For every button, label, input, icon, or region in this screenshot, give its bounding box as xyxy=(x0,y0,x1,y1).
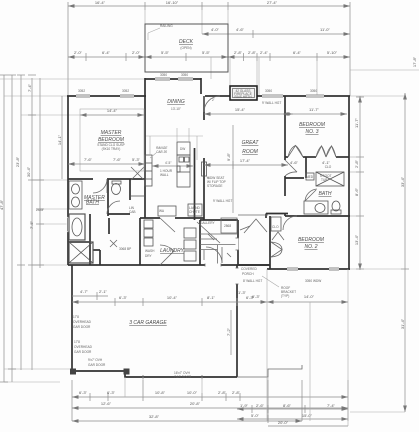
svg-text:BEDROOM: BEDROOM xyxy=(299,122,326,128)
svg-text:7'-6": 7'-6" xyxy=(113,157,122,162)
svg-text:16'-4": 16'-4" xyxy=(95,0,106,5)
svg-text:1'-9": 1'-9" xyxy=(240,403,249,408)
svg-text:6'-4": 6'-4" xyxy=(102,50,111,55)
svg-text:MED: MED xyxy=(306,175,314,179)
svg-text:RAILING: RAILING xyxy=(160,24,173,28)
svg-text:3052: 3052 xyxy=(78,89,85,93)
svg-text:DW: DW xyxy=(180,147,185,151)
svg-text:GAR DOOR: GAR DOOR xyxy=(174,375,192,379)
svg-text:6'-4": 6'-4" xyxy=(293,50,302,55)
svg-text:17'8: 17'8 xyxy=(74,340,80,344)
svg-text:GALLERY: GALLERY xyxy=(200,221,216,225)
svg-text:GAR DOOR: GAR DOOR xyxy=(88,363,106,367)
svg-text:3050: 3050 xyxy=(310,89,317,93)
svg-text:3 CAR GARAGE: 3 CAR GARAGE xyxy=(129,320,167,326)
svg-text:2'-0": 2'-0" xyxy=(74,50,83,55)
svg-text:30'-4": 30'-4" xyxy=(26,166,31,177)
svg-text:5'-0": 5'-0" xyxy=(251,413,260,418)
svg-text:20'-0": 20'-0" xyxy=(278,420,289,425)
svg-text:NO. 3: NO. 3 xyxy=(305,129,318,135)
svg-text:14'-1": 14'-1" xyxy=(57,134,62,145)
svg-text:4'-5": 4'-5" xyxy=(165,161,171,165)
svg-text:9'-8": 9'-8" xyxy=(226,152,231,161)
svg-text:CHUTE: CHUTE xyxy=(189,210,200,214)
svg-text:2'-8": 2'-8" xyxy=(234,50,243,55)
svg-text:27'-4": 27'-4" xyxy=(267,0,278,5)
svg-text:13'-10": 13'-10" xyxy=(171,107,181,111)
svg-text:OVERHEAD: OVERHEAD xyxy=(74,345,93,349)
svg-text:WALL: WALL xyxy=(160,173,169,177)
svg-text:CLO: CLO xyxy=(272,225,279,229)
svg-text:7'-6": 7'-6" xyxy=(84,157,93,162)
svg-text:4'-7": 4'-7" xyxy=(80,289,89,294)
svg-text:5'-10": 5'-10" xyxy=(327,50,338,55)
svg-text:DECK: DECK xyxy=(179,39,194,45)
svg-text:2'-6": 2'-6" xyxy=(256,403,265,408)
svg-text:2'-8": 2'-8" xyxy=(232,390,241,395)
svg-text:3050 WDW: 3050 WDW xyxy=(305,279,321,283)
svg-text:DRY: DRY xyxy=(145,254,153,258)
svg-text:2': 2' xyxy=(212,98,215,102)
svg-text:MASTER: MASTER xyxy=(101,130,122,136)
svg-text:PORCH: PORCH xyxy=(242,272,254,276)
svg-text:DINING: DINING xyxy=(167,99,185,105)
svg-text:2'-8": 2'-8" xyxy=(218,390,227,395)
svg-text:BATH: BATH xyxy=(86,200,99,206)
svg-text:3050: 3050 xyxy=(160,73,167,77)
svg-text:7'-5": 7'-5" xyxy=(29,220,34,229)
svg-text:3068 BP: 3068 BP xyxy=(119,247,131,251)
svg-text:5'-3": 5'-3" xyxy=(132,157,141,162)
svg-text:4'-6": 4'-6" xyxy=(290,160,299,165)
svg-text:(9X10 TRAY): (9X10 TRAY) xyxy=(102,147,121,151)
svg-text:17'8: 17'8 xyxy=(73,315,79,319)
svg-text:3050: 3050 xyxy=(181,73,188,77)
svg-text:4'-0": 4'-0" xyxy=(211,27,220,32)
svg-text:16'-10": 16'-10" xyxy=(166,0,179,5)
svg-text:6'-3": 6'-3" xyxy=(246,295,255,300)
svg-text:17'-4": 17'-4" xyxy=(240,158,251,163)
svg-text:GAR DOOR: GAR DOOR xyxy=(74,350,92,354)
svg-text:10'-8": 10'-8" xyxy=(155,390,166,395)
svg-text:2'-1": 2'-1" xyxy=(99,289,108,294)
svg-text:12'-6": 12'-6" xyxy=(101,401,112,406)
svg-text:GREAT: GREAT xyxy=(242,140,260,146)
svg-text:5'-5": 5'-5" xyxy=(202,50,211,55)
svg-text:1'-3": 1'-3" xyxy=(238,290,247,295)
svg-text:47'-8": 47'-8" xyxy=(0,199,4,210)
svg-text:33'-4": 33'-4" xyxy=(400,176,405,187)
svg-text:COVERED: COVERED xyxy=(241,267,257,271)
svg-text:2'-4": 2'-4" xyxy=(260,50,269,55)
svg-text:31'-4": 31'-4" xyxy=(400,318,405,329)
svg-text:8'-1": 8'-1" xyxy=(207,295,216,300)
svg-text:6'-3": 6'-3" xyxy=(79,390,88,395)
svg-text:13'-4": 13'-4" xyxy=(354,234,359,245)
svg-text:CLO: CLO xyxy=(325,165,332,169)
svg-text:2'-8": 2'-8" xyxy=(248,50,257,55)
svg-text:6'-3": 6'-3" xyxy=(107,390,116,395)
svg-text:CAB: CAB xyxy=(129,210,136,214)
svg-text:ROOM: ROOM xyxy=(242,149,258,155)
svg-text:6'-3": 6'-3" xyxy=(119,295,128,300)
svg-text:4'-6": 4'-6" xyxy=(236,27,245,32)
svg-text:2'-0": 2'-0" xyxy=(132,50,141,55)
svg-text:14'-0": 14'-0" xyxy=(304,294,315,299)
svg-text:STORAGE: STORAGE xyxy=(207,184,223,188)
svg-text:WASH: WASH xyxy=(145,249,155,253)
svg-text:7'-4": 7'-4" xyxy=(27,83,32,92)
svg-text:BATH: BATH xyxy=(319,191,332,197)
svg-text:3052: 3052 xyxy=(122,89,129,93)
svg-text:2868: 2868 xyxy=(224,224,231,228)
svg-text:3050: 3050 xyxy=(265,89,272,93)
svg-text:10'-0": 10'-0" xyxy=(187,390,198,395)
svg-text:2'-8": 2'-8" xyxy=(354,159,359,168)
svg-text:7'-2": 7'-2" xyxy=(226,327,231,336)
svg-text:CAB 30: CAB 30 xyxy=(156,150,167,154)
svg-text:NO. 2: NO. 2 xyxy=(304,244,317,250)
svg-text:LAUNDRY: LAUNDRY xyxy=(160,248,184,254)
svg-text:GAR DOOR: GAR DOOR xyxy=(73,325,91,329)
svg-text:7'-4": 7'-4" xyxy=(327,403,336,408)
svg-text:TUB: TUB xyxy=(321,178,327,182)
svg-text:9' WALL HGT: 9' WALL HGT xyxy=(213,199,232,203)
svg-text:23'-8": 23'-8" xyxy=(15,156,20,167)
svg-text:9' WALL HGT: 9' WALL HGT xyxy=(262,101,281,105)
svg-text:11'-7": 11'-7" xyxy=(354,117,359,127)
svg-text:8' WALL HGT: 8' WALL HGT xyxy=(243,279,262,283)
svg-text:2428: 2428 xyxy=(36,208,43,212)
svg-text:15'-0": 15'-0" xyxy=(302,413,313,418)
svg-text:(TYP): (TYP) xyxy=(281,294,289,298)
svg-text:17'-8": 17'-8" xyxy=(412,56,417,67)
svg-text:11'-7": 11'-7" xyxy=(309,107,319,112)
svg-text:11'-0": 11'-0" xyxy=(320,27,330,32)
svg-text:BEDROOM: BEDROOM xyxy=(298,237,325,243)
svg-text:15'-4": 15'-4" xyxy=(235,107,246,112)
svg-text:(OPEN): (OPEN) xyxy=(180,46,191,50)
svg-text:20'-8": 20'-8" xyxy=(190,401,201,406)
svg-text:WA: WA xyxy=(159,209,165,213)
svg-text:9'x7' OVH: 9'x7' OVH xyxy=(88,358,103,362)
svg-text:10'-4": 10'-4" xyxy=(167,295,178,300)
svg-text:OVERHEAD: OVERHEAD xyxy=(73,320,92,324)
svg-text:32'-8": 32'-8" xyxy=(149,414,160,419)
svg-text:5'-5": 5'-5" xyxy=(161,50,170,55)
svg-text:8'-6": 8'-6" xyxy=(354,187,359,196)
svg-text:8'-6": 8'-6" xyxy=(283,403,292,408)
svg-text:RAIS HRTH: RAIS HRTH xyxy=(234,95,252,99)
